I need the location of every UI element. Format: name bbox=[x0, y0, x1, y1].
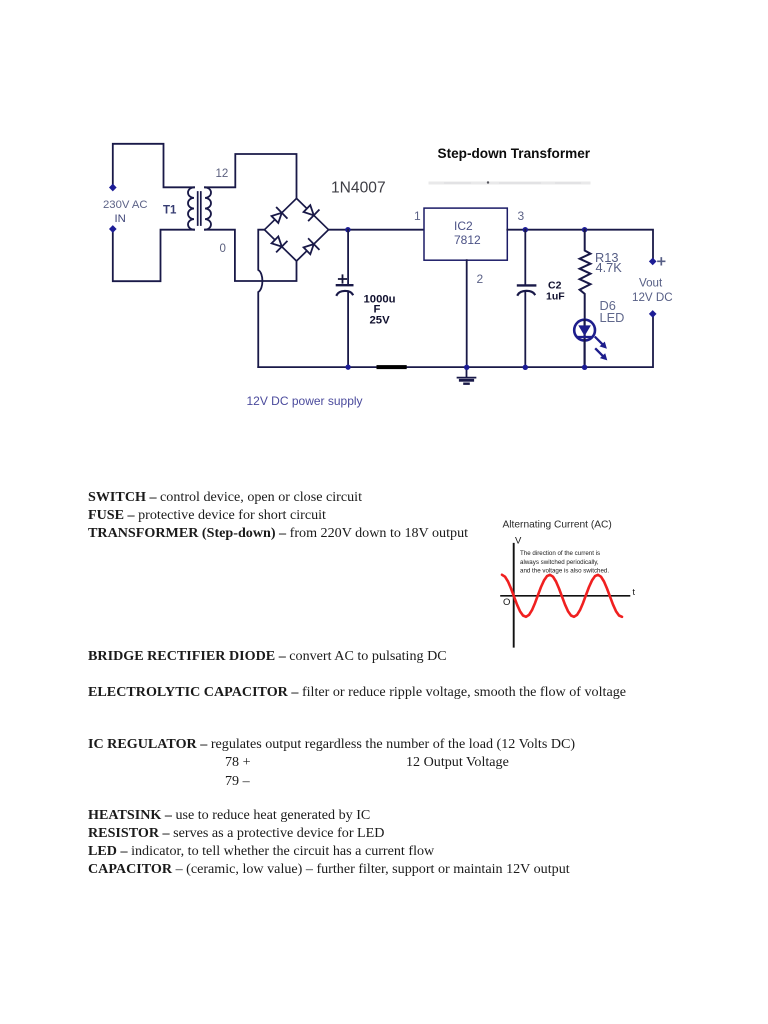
svg-text:1N4007: 1N4007 bbox=[331, 180, 386, 197]
wire: secondary 0 to bridge bottom bbox=[205, 230, 297, 281]
wire: bridge right vertex to IC pin 1 bbox=[329, 229, 425, 231]
body text lines bbox=[88, 488, 362, 506]
junction node: C1 bottom bbox=[345, 364, 350, 369]
wire: 230V AC input top loop bbox=[113, 144, 194, 188]
svg-text:Vout: Vout bbox=[639, 277, 663, 290]
terminal dot: AC input top bbox=[109, 184, 117, 192]
svg-text:1: 1 bbox=[414, 209, 421, 223]
svg-text:230V AC: 230V AC bbox=[103, 199, 148, 211]
diode D3 lower-left bbox=[270, 235, 287, 252]
svg-text:1uF: 1uF bbox=[546, 291, 565, 303]
junction node: C1 top bbox=[345, 227, 350, 232]
IC regulator U1 box bbox=[424, 208, 507, 260]
capacitor C1 plus sign bbox=[339, 275, 346, 282]
svg-text:12V DC power supply: 12V DC power supply bbox=[247, 394, 363, 408]
svg-text:Step-down Transformer: Step-down Transformer bbox=[438, 146, 591, 161]
junction node: C2 bottom bbox=[523, 365, 528, 370]
svg-text:and the voltage is also switch: and the voltage is also switched. bbox=[520, 568, 609, 575]
wire: secondary 12 to bridge top bbox=[205, 154, 297, 198]
svg-text:O: O bbox=[503, 597, 510, 608]
ground symbol bbox=[466, 367, 468, 377]
junction node: LED bottom bbox=[582, 365, 587, 370]
capacitor C2 top wire bbox=[524, 230, 526, 284]
bottom ground rail bbox=[258, 317, 653, 367]
svg-text:IC2: IC2 bbox=[454, 219, 473, 233]
svg-text:3: 3 bbox=[518, 209, 525, 223]
wire: 230V AC input bottom loop bbox=[113, 230, 194, 282]
svg-text:25V: 25V bbox=[370, 315, 391, 327]
svg-text:T1: T1 bbox=[163, 205, 177, 217]
AC graph: red sine wave bbox=[502, 575, 622, 617]
svg-text:Alternating Current (AC): Alternating Current (AC) bbox=[503, 520, 612, 531]
svg-text:4.7K: 4.7K bbox=[596, 260, 623, 275]
black overlay segment on rail bbox=[377, 365, 407, 369]
wire: IC pin 3 to output corner bbox=[507, 230, 653, 258]
AC graph: V axis bbox=[513, 544, 515, 647]
capacitor C1 plates bbox=[337, 284, 352, 286]
diode D1 upper-left bbox=[270, 208, 287, 225]
LED D6 circle bbox=[574, 320, 595, 341]
svg-text:always switched periodically,: always switched periodically, bbox=[520, 559, 599, 566]
bridge rectifier diamond bbox=[265, 198, 329, 261]
transformer core bbox=[198, 192, 201, 225]
resistor R13 bbox=[580, 230, 591, 320]
terminal dot: AC input bottom bbox=[109, 225, 117, 233]
terminal dot: Vout plus bbox=[649, 258, 657, 266]
LED light arrows bbox=[596, 337, 608, 360]
svg-text:LED: LED bbox=[600, 310, 625, 325]
svg-text:2: 2 bbox=[477, 272, 484, 286]
capacitor C2 plates bbox=[518, 284, 535, 286]
wire: bridge left vertex down with crossover hop bbox=[258, 230, 264, 367]
svg-text:The direction of the current i: The direction of the current is bbox=[520, 550, 600, 557]
svg-text:7812: 7812 bbox=[454, 233, 481, 247]
transformer T1 secondary coil bbox=[205, 187, 211, 229]
junction node: ground bbox=[464, 365, 469, 370]
svg-text:V: V bbox=[515, 536, 522, 547]
label plus bbox=[658, 258, 665, 265]
junction node: R13 top bbox=[582, 227, 587, 232]
capacitor C1 bottom wire bbox=[347, 291, 349, 367]
diode D2 upper-right bbox=[302, 203, 319, 220]
terminal dot: Vout minus bbox=[649, 310, 657, 318]
faded watermark line bbox=[430, 182, 589, 185]
svg-text:IN: IN bbox=[115, 213, 126, 225]
AC graph: t axis bbox=[501, 595, 630, 597]
LED D6 wire through bbox=[583, 320, 585, 367]
capacitor C1 top wire bbox=[347, 230, 349, 286]
junction node: C2 top (pin3) bbox=[523, 227, 528, 232]
wire: IC pin 2 down bbox=[466, 260, 468, 367]
LED D6 triangle and bar bbox=[578, 325, 591, 336]
svg-text:t: t bbox=[633, 587, 636, 597]
diode D4 lower-right bbox=[302, 239, 319, 256]
capacitor C2 bottom wire bbox=[524, 291, 526, 367]
svg-text:12V DC: 12V DC bbox=[632, 291, 673, 304]
svg-text:12: 12 bbox=[216, 168, 229, 180]
svg-text:0: 0 bbox=[220, 243, 226, 255]
transformer T1 primary coil bbox=[188, 187, 194, 229]
